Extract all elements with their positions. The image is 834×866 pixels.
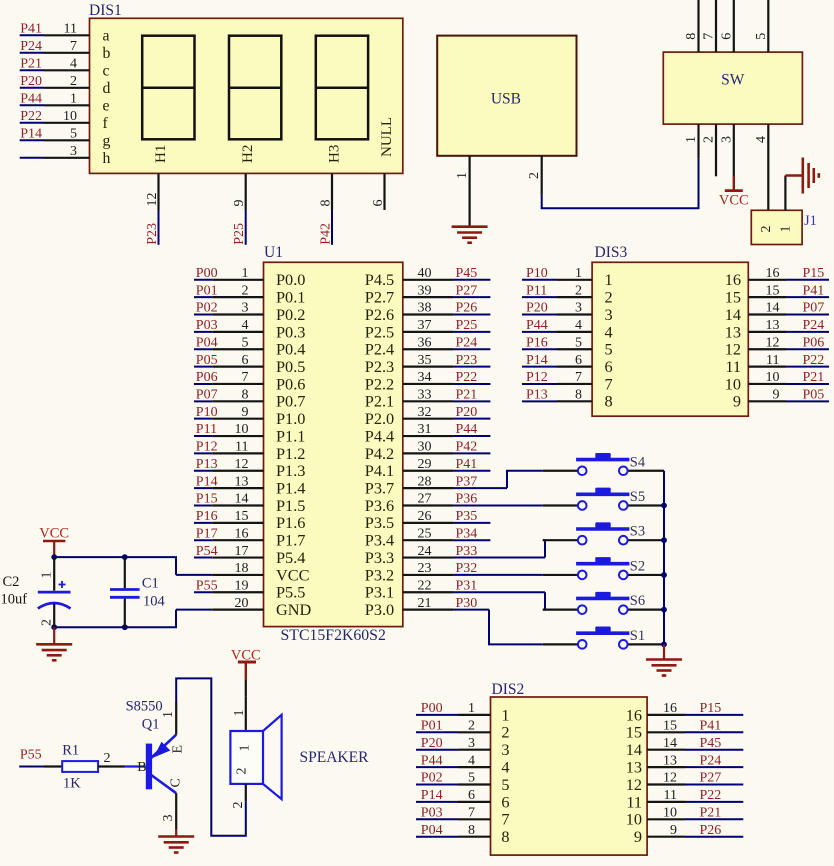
svg-text:13: 13: [626, 758, 642, 777]
svg-text:16: 16: [626, 705, 642, 724]
svg-text:2: 2: [235, 768, 250, 775]
svg-text:1: 1: [468, 701, 475, 716]
svg-text:P1.3: P1.3: [276, 461, 305, 480]
svg-text:P15: P15: [700, 701, 722, 716]
svg-text:18: 18: [235, 561, 249, 576]
svg-text:P3.3: P3.3: [365, 548, 394, 567]
svg-text:7: 7: [605, 374, 613, 393]
U1 left pin 18 (VCC): [176, 561, 309, 584]
svg-text:10uf: 10uf: [1, 592, 28, 608]
U1 left pin 1 (P0.0 / net P00): [194, 266, 305, 289]
resistor R1 1K: [44, 743, 125, 792]
svg-text:H2: H2: [240, 145, 256, 163]
svg-text:23: 23: [418, 561, 432, 576]
svg-text:5: 5: [70, 126, 77, 141]
svg-text:10: 10: [725, 374, 741, 393]
U1 right pin 26 (P3.5 / net P35): [365, 509, 491, 532]
DIS1 pin e (1 / net P44): [20, 91, 110, 114]
svg-text:12: 12: [766, 335, 780, 350]
svg-text:P1.2: P1.2: [276, 444, 305, 463]
DIS2 right pin 13 / net P24: [626, 753, 744, 776]
U1 right pin 23 (P3.2 / net P32): [365, 561, 543, 584]
svg-text:P41: P41: [20, 21, 42, 36]
DIS2 left pin 7 / net P03: [416, 806, 510, 829]
svg-text:1K: 1K: [63, 776, 81, 792]
svg-text:P3.2: P3.2: [365, 565, 394, 584]
junction dots on rails: [51, 554, 57, 560]
svg-text:5: 5: [468, 771, 475, 786]
wire USB pin2 to SW pin1: [542, 159, 699, 208]
U1 left pin 12 (P1.3 / net P13): [194, 457, 305, 480]
svg-text:30: 30: [418, 440, 432, 455]
svg-text:15: 15: [626, 723, 642, 742]
svg-text:38: 38: [418, 301, 432, 316]
svg-text:1: 1: [575, 266, 582, 281]
svg-text:Q1: Q1: [142, 717, 160, 733]
svg-text:2: 2: [759, 226, 774, 233]
svg-text:VCC: VCC: [276, 565, 309, 584]
svg-text:P34: P34: [456, 526, 478, 541]
svg-text:P1.5: P1.5: [276, 496, 305, 515]
svg-text:P4.5: P4.5: [365, 270, 394, 289]
svg-text:6: 6: [501, 792, 509, 811]
svg-text:P41: P41: [700, 719, 722, 734]
svg-text:P30: P30: [456, 596, 478, 611]
svg-text:P2.7: P2.7: [365, 288, 394, 307]
svg-text:P20: P20: [421, 736, 443, 751]
capacitor C2 10uf (electrolytic): [1, 557, 71, 627]
svg-text:S8550: S8550: [126, 699, 163, 715]
DIS3 right pin 13 / net P24: [725, 318, 829, 341]
svg-text:28: 28: [418, 474, 432, 489]
svg-text:USB: USB: [491, 91, 521, 108]
svg-text:5: 5: [242, 335, 249, 350]
svg-text:P13: P13: [196, 457, 218, 472]
svg-text:P2.2: P2.2: [365, 374, 394, 393]
svg-text:11: 11: [725, 357, 741, 376]
U1 right pin 30 (P4.2 / net P42): [365, 440, 491, 463]
DIS2 left pin 4 / net P44: [416, 753, 510, 776]
svg-text:5: 5: [575, 335, 582, 350]
svg-text:P3.0: P3.0: [365, 600, 394, 619]
svg-text:P06: P06: [803, 335, 825, 350]
svg-text:P16: P16: [526, 335, 548, 350]
svg-text:1: 1: [40, 572, 55, 579]
svg-text:27: 27: [418, 492, 432, 507]
7-segment display module DIS1: [89, 2, 403, 173]
svg-text:1: 1: [232, 710, 247, 717]
svg-text:16: 16: [766, 266, 780, 281]
svg-text:8: 8: [501, 827, 509, 846]
svg-text:16: 16: [663, 701, 677, 716]
svg-text:12: 12: [663, 771, 677, 786]
DIS1 pin c (4 / net P21): [20, 56, 110, 79]
svg-text:1: 1: [779, 226, 794, 233]
svg-text:P2.1: P2.1: [365, 392, 394, 411]
DIS2 right pin 9 / net P26: [634, 823, 743, 846]
USB pin 2: [527, 156, 542, 195]
power VCC (speaker): [231, 648, 261, 680]
svg-text:2: 2: [527, 172, 542, 179]
wire P33 to S3: [544, 540, 546, 557]
loudspeaker LS (SPEAKER): [230, 696, 369, 808]
svg-text:39: 39: [418, 283, 432, 298]
svg-text:P21: P21: [700, 806, 722, 821]
svg-text:29: 29: [418, 457, 432, 472]
svg-text:16: 16: [235, 526, 249, 541]
switch block SW: [663, 52, 802, 124]
svg-text:P33: P33: [456, 544, 478, 559]
svg-text:P04: P04: [421, 823, 443, 838]
wire P30 to S1: [489, 610, 543, 645]
junction (bus at 505): [661, 503, 667, 509]
svg-text:P4.2: P4.2: [365, 444, 394, 463]
svg-text:5: 5: [754, 33, 769, 40]
wire P31 to S6: [543, 592, 545, 609]
ground (USB pin 1): [452, 227, 488, 243]
display header DIS3: [592, 244, 748, 416]
svg-text:21: 21: [418, 596, 432, 611]
svg-text:9: 9: [242, 405, 249, 420]
svg-text:4: 4: [242, 318, 249, 333]
DIS3 left pin 6 / net P14: [522, 353, 613, 376]
svg-text:P1.0: P1.0: [276, 409, 305, 428]
svg-text:22: 22: [418, 578, 432, 593]
svg-text:10: 10: [626, 810, 642, 829]
svg-text:P45: P45: [456, 266, 478, 281]
svg-text:1: 1: [501, 705, 509, 724]
DIS3 left pin 2 / net P11: [522, 283, 613, 306]
svg-text:34: 34: [418, 370, 432, 385]
svg-text:15: 15: [663, 719, 677, 734]
svg-text:4: 4: [754, 136, 769, 143]
DIS3 right pin 9 / net P05: [733, 388, 829, 411]
svg-text:P0.2: P0.2: [276, 305, 305, 324]
svg-text:9: 9: [670, 823, 677, 838]
transistor Q1 S8550 (PNP): [125, 699, 185, 830]
svg-text:E: E: [171, 745, 186, 754]
svg-text:14: 14: [626, 740, 642, 759]
svg-text:P01: P01: [196, 283, 218, 298]
svg-text:P26: P26: [700, 823, 722, 838]
DIS3 right pin 14 / net P07: [725, 301, 829, 324]
svg-text:P25: P25: [456, 318, 478, 333]
svg-text:e: e: [103, 98, 110, 115]
svg-text:14: 14: [663, 736, 677, 751]
svg-text:5: 5: [501, 775, 509, 794]
U1 left pin 7 (P0.6 / net P06): [194, 370, 305, 393]
svg-text:C: C: [169, 778, 184, 787]
U1 right pin 32 (P2.0 / net P20): [365, 405, 491, 428]
svg-text:P06: P06: [196, 370, 218, 385]
svg-text:2: 2: [70, 74, 77, 89]
svg-text:P12: P12: [196, 440, 218, 455]
svg-text:20: 20: [235, 596, 249, 611]
U1 left pin 11 (P1.2 / net P12): [194, 440, 305, 463]
svg-text:P20: P20: [526, 301, 548, 316]
svg-text:P24: P24: [456, 335, 478, 350]
svg-text:2: 2: [242, 283, 249, 298]
svg-text:3: 3: [161, 815, 176, 822]
svg-text:25: 25: [418, 526, 432, 541]
svg-text:33: 33: [418, 388, 432, 403]
wire VCC to speaker pin1: [245, 680, 247, 697]
svg-text:3: 3: [575, 301, 582, 316]
microcontroller U1 STC15F2K60S2: [264, 244, 403, 644]
svg-text:9: 9: [773, 388, 780, 403]
svg-text:SW: SW: [721, 72, 745, 89]
svg-text:P32: P32: [456, 561, 478, 576]
svg-text:P27: P27: [456, 283, 478, 298]
junction (bus at 644): [661, 641, 667, 647]
svg-text:13: 13: [766, 318, 780, 333]
svg-text:P2.0: P2.0: [365, 409, 394, 428]
DIS2 left pin 5 / net P02: [416, 771, 510, 794]
svg-text:12: 12: [235, 457, 249, 472]
SW pin 2: [702, 124, 717, 176]
svg-text:3: 3: [242, 301, 249, 316]
U1 left pin 16 (P1.7 / net P17): [194, 526, 305, 549]
svg-text:1: 1: [238, 745, 253, 752]
DIS1 bottom pin 9 (H2 / net P25): [232, 145, 256, 245]
svg-text:9: 9: [634, 827, 642, 846]
svg-text:2: 2: [575, 283, 582, 298]
svg-text:3: 3: [501, 740, 509, 759]
U1 right pin 27 (P3.6 / net P36): [365, 492, 543, 515]
svg-text:VCC: VCC: [39, 526, 69, 542]
DIS1 pin b (7 / net P24): [20, 39, 111, 62]
svg-text:10: 10: [766, 370, 780, 385]
DIS2 left pin 3 / net P20: [416, 736, 510, 759]
DIS3 left pin 8 / net P13: [522, 388, 613, 411]
junction (bus at 575): [661, 572, 667, 578]
svg-text:B: B: [137, 760, 146, 775]
DIS3 right pin 10 / net P21: [725, 370, 829, 393]
svg-text:f: f: [103, 115, 109, 132]
svg-text:8: 8: [684, 33, 699, 40]
svg-text:35: 35: [418, 353, 432, 368]
svg-text:4: 4: [575, 318, 582, 333]
wire P37 to S4: [507, 471, 543, 488]
svg-text:P41: P41: [456, 457, 478, 472]
svg-text:11: 11: [64, 21, 77, 36]
DIS1 bottom pin 12 (H1 / net P23): [145, 145, 169, 245]
svg-text:P17: P17: [196, 526, 218, 541]
svg-text:P14: P14: [421, 788, 443, 803]
SW top pin 7: [702, 0, 717, 52]
push button S1: [543, 627, 664, 649]
svg-text:37: 37: [418, 318, 432, 333]
svg-text:S2: S2: [630, 558, 645, 574]
DIS1 bottom pin 6 (NULL): [371, 117, 395, 210]
svg-text:P5.5: P5.5: [276, 583, 305, 602]
svg-text:2: 2: [501, 723, 509, 742]
svg-text:1: 1: [605, 270, 613, 289]
svg-text:P1.6: P1.6: [276, 513, 305, 532]
svg-text:P02: P02: [421, 771, 443, 786]
svg-text:1: 1: [455, 172, 470, 179]
DIS3 right pin 15 / net P41: [725, 283, 829, 306]
svg-text:P0.3: P0.3: [276, 322, 305, 341]
DIS2 left pin 2 / net P01: [416, 719, 510, 742]
svg-text:14: 14: [725, 305, 741, 324]
svg-text:1: 1: [161, 711, 176, 718]
svg-text:11: 11: [766, 353, 779, 368]
SW top pin 5: [754, 0, 769, 52]
svg-text:P5.4: P5.4: [276, 548, 305, 567]
svg-text:P27: P27: [700, 771, 722, 786]
svg-text:H1: H1: [153, 145, 169, 163]
svg-text:P0.4: P0.4: [276, 340, 305, 359]
svg-text:P24: P24: [20, 39, 42, 54]
svg-text:P11: P11: [196, 422, 217, 437]
svg-text:3: 3: [605, 305, 613, 324]
svg-text:P12: P12: [526, 370, 548, 385]
svg-text:P1.7: P1.7: [276, 531, 305, 550]
svg-text:P36: P36: [456, 492, 478, 507]
svg-text:1: 1: [70, 91, 77, 106]
svg-text:10: 10: [235, 422, 249, 437]
DIS3 left pin 4 / net P44: [522, 318, 613, 341]
svg-text:P44: P44: [526, 318, 548, 333]
svg-text:P35: P35: [456, 509, 478, 524]
svg-text:DIS2: DIS2: [492, 681, 525, 698]
svg-text:P14: P14: [526, 353, 548, 368]
U1 left pin 13 (P1.4 / net P14): [194, 474, 305, 497]
ground (button bus): [646, 660, 682, 676]
svg-text:P0.0: P0.0: [276, 270, 305, 289]
DIS2 right pin 14 / net P45: [626, 736, 744, 759]
svg-text:P3.5: P3.5: [365, 513, 394, 532]
svg-text:H3: H3: [326, 145, 342, 163]
svg-text:P05: P05: [196, 353, 218, 368]
U1 left pin 2 (P0.1 / net P01): [194, 283, 305, 306]
svg-text:P05: P05: [803, 388, 825, 403]
U1 right pin 24 (P3.3 / net P33): [365, 544, 545, 567]
svg-text:P04: P04: [196, 335, 218, 350]
svg-text:2: 2: [231, 802, 246, 809]
DIS3 left pin 3 / net P20: [522, 301, 613, 324]
DIS1 pin a (11 / net P41): [20, 21, 110, 44]
svg-text:12: 12: [725, 340, 741, 359]
SW pin 1: [684, 124, 699, 159]
U1 left pin 10 (P1.1 / net P11): [194, 422, 305, 445]
SW top pin 6: [719, 0, 734, 52]
junction (bus at 610): [661, 607, 667, 613]
svg-text:104: 104: [143, 594, 166, 610]
svg-text:P44: P44: [456, 422, 478, 437]
U1 left pin 17 (P5.4 / net P54): [194, 544, 305, 567]
svg-text:40: 40: [418, 266, 432, 281]
svg-text:P25: P25: [232, 223, 247, 245]
DIS3 left pin 7 / net P12: [522, 370, 613, 393]
svg-text:P01: P01: [421, 719, 443, 734]
U1 left pin 5 (P0.4 / net P04): [194, 335, 305, 358]
U1 right pin 37 (P2.5 / net P25): [365, 318, 491, 341]
svg-text:2: 2: [702, 136, 717, 143]
svg-text:10: 10: [663, 806, 677, 821]
svg-text:P20: P20: [456, 405, 478, 420]
svg-text:P54: P54: [196, 544, 218, 559]
DIS1 pin d (2 / net P20): [20, 74, 111, 97]
DIS2 right pin 10 / net P21: [626, 806, 744, 829]
svg-text:P55: P55: [20, 748, 42, 763]
U1 right pin 35 (P2.3 / net P23): [365, 353, 491, 376]
svg-text:8: 8: [242, 388, 249, 403]
DIS2 left pin 8 / net P04: [416, 823, 510, 846]
svg-text:P37: P37: [456, 474, 478, 489]
svg-text:P16: P16: [196, 509, 218, 524]
svg-text:P07: P07: [196, 388, 218, 403]
svg-text:P3.1: P3.1: [365, 583, 394, 602]
svg-text:P23: P23: [456, 353, 478, 368]
svg-text:P0.5: P0.5: [276, 357, 305, 376]
svg-text:P22: P22: [700, 788, 722, 803]
svg-text:VCC: VCC: [719, 193, 749, 209]
svg-text:7: 7: [242, 370, 249, 385]
svg-text:7: 7: [70, 39, 77, 54]
svg-text:P0.1: P0.1: [276, 288, 305, 307]
DIS3 right pin 11 / net P22: [725, 353, 829, 376]
svg-text:6: 6: [719, 33, 734, 40]
push button S3: [543, 522, 664, 544]
svg-text:P24: P24: [803, 318, 825, 333]
svg-text:P1.4: P1.4: [276, 479, 305, 498]
svg-text:24: 24: [418, 544, 432, 559]
DIS1 digit glyph H3 rectangle: [316, 36, 368, 140]
svg-text:P31: P31: [456, 578, 478, 593]
U1 right pin 34 (P2.2 / net P22): [365, 370, 491, 393]
DIS2 left pin 6 / net P14: [416, 788, 510, 811]
USB pin 1: [455, 156, 470, 227]
svg-text:P23: P23: [145, 223, 160, 245]
svg-text:S1: S1: [630, 628, 645, 644]
svg-text:36: 36: [418, 335, 432, 350]
svg-text:DIS1: DIS1: [89, 2, 122, 19]
U1 left pin 19 (P5.5 / net P55): [194, 578, 305, 601]
svg-text:8: 8: [468, 823, 475, 838]
svg-text:P02: P02: [196, 301, 218, 316]
svg-text:S5: S5: [630, 489, 645, 505]
U1 left pin 4 (P0.3 / net P03): [194, 318, 305, 341]
svg-text:SPEAKER: SPEAKER: [300, 749, 370, 766]
SW pin 4: [754, 124, 769, 210]
svg-text:P14: P14: [20, 126, 42, 141]
svg-text:P15: P15: [196, 492, 218, 507]
svg-text:15: 15: [725, 288, 741, 307]
svg-text:P2.3: P2.3: [365, 357, 394, 376]
svg-text:6: 6: [371, 200, 386, 207]
U1 right pin 31 (P4.4 / net P44): [365, 422, 491, 445]
svg-text:b: b: [103, 45, 111, 62]
svg-text:P41: P41: [803, 283, 825, 298]
ground (C2): [36, 644, 72, 660]
svg-text:P07: P07: [803, 301, 825, 316]
svg-text:c: c: [103, 63, 110, 80]
svg-text:P22: P22: [456, 370, 478, 385]
svg-text:P44: P44: [20, 91, 42, 106]
SW top pin 8: [684, 0, 699, 52]
svg-text:P2.4: P2.4: [365, 340, 394, 359]
svg-text:P42: P42: [456, 440, 478, 455]
U1 left pin 9 (P1.0 / net P10): [194, 405, 305, 428]
push button S4: [543, 453, 664, 475]
svg-text:C1: C1: [142, 576, 159, 592]
svg-text:P13: P13: [526, 388, 548, 403]
DIS3 right pin 16 / net P15: [725, 266, 829, 289]
svg-text:26: 26: [418, 509, 432, 524]
svg-text:8: 8: [605, 392, 613, 411]
